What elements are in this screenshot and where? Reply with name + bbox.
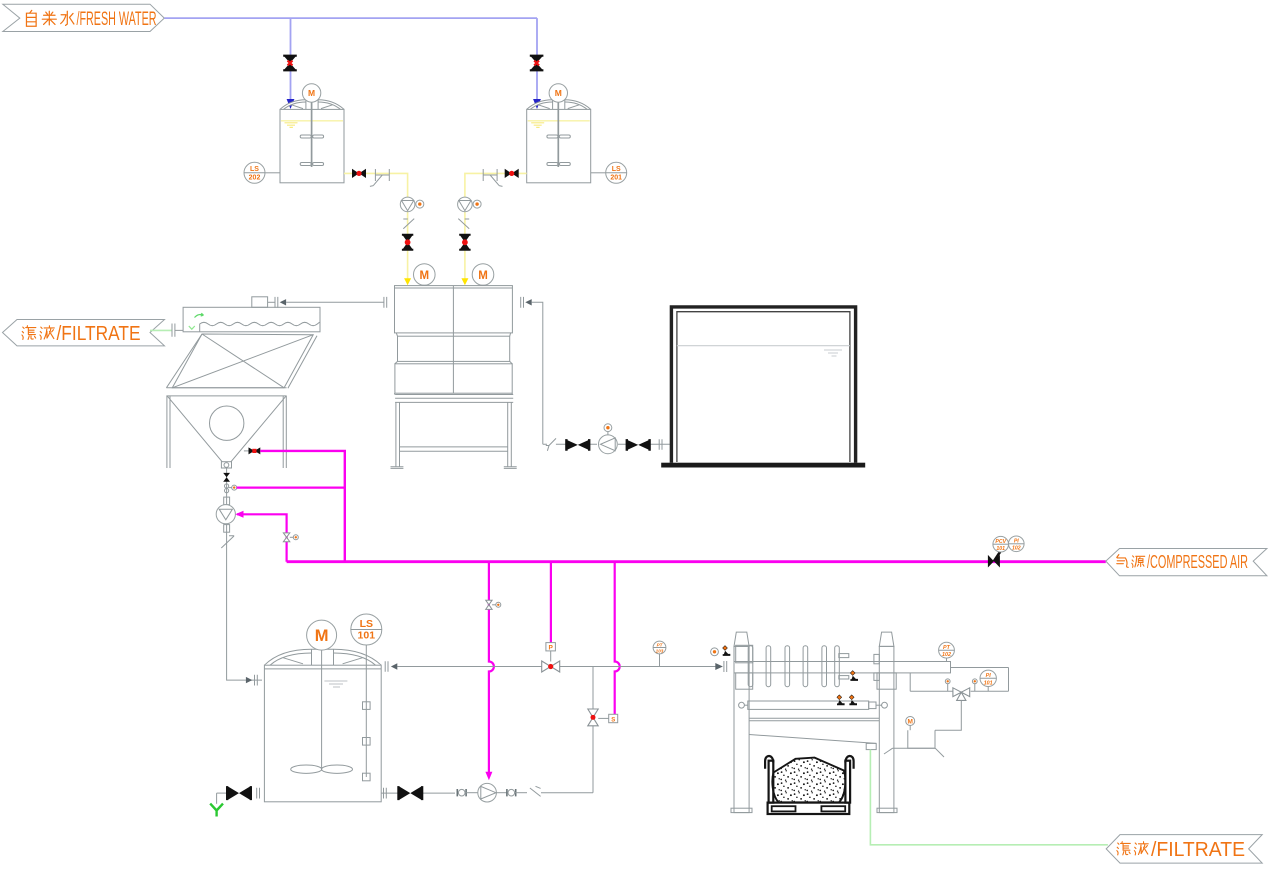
sludge pile (speckled) — [772, 758, 845, 803]
yellow outlet line TK202 — [344, 173, 408, 280]
weir wave inside trough — [200, 322, 320, 332]
filtrate line into trough (green) — [150, 329, 172, 331]
sensor flag on beam — [850, 671, 858, 681]
cart hooks — [765, 756, 773, 769]
cart base frame — [768, 803, 850, 814]
air riser to slurry pump (bottom) with hop — [489, 562, 494, 773]
air branch to pressure regulator — [550, 562, 552, 643]
motor on hydraulic pack — [906, 717, 915, 726]
motor M on TK201 — [549, 84, 567, 102]
valve below P201 — [459, 235, 470, 250]
valve below P202 — [402, 235, 413, 250]
blue arrow into tank TK201 — [533, 99, 541, 109]
filtrate collecting trough — [183, 307, 320, 332]
svg-text:PI: PI — [1014, 539, 1019, 545]
instrument PI102 — [1009, 536, 1025, 552]
valve on fresh water line (left) — [283, 56, 297, 71]
slurry return line into TK101 (from press line) — [397, 666, 716, 668]
valve pump suction — [566, 439, 589, 451]
pipe trough-stub to mix tank — [286, 301, 384, 303]
dosing pump P202 — [400, 197, 415, 212]
press right column — [879, 632, 894, 646]
banner FILTRATE (bottom right) — [1106, 835, 1262, 864]
filter plates — [748, 646, 839, 687]
wash/blow pipe loop — [910, 668, 1008, 692]
dosing pump P201 — [458, 197, 473, 212]
hydraulic power pack box — [908, 730, 935, 748]
inlet arrow left of TK101 — [246, 677, 252, 683]
valve stem to hydraulic box — [935, 701, 961, 731]
right nozzle of mix tank + arrow — [521, 297, 524, 308]
sludge conditioning tank TK101 — [264, 649, 381, 802]
coupling before slurry pump — [457, 789, 466, 796]
drip tray slope — [749, 735, 876, 744]
yellow arrow into mix tank (left) — [404, 278, 411, 285]
press frame cross beam — [749, 718, 879, 721]
slurry feed pump (air diaphragm) — [478, 783, 497, 802]
check valve P202 — [403, 219, 414, 229]
water level in basin — [677, 345, 850, 347]
agitator TK101 — [291, 650, 353, 773]
check valve below hopper pump — [221, 536, 234, 548]
agitator TK202 — [300, 102, 323, 167]
level switch LS201 — [591, 172, 606, 174]
drain pipe + Y strainer (green) — [216, 793, 218, 804]
check valve after slurry pump — [530, 786, 541, 796]
coupling above hopper pump — [224, 497, 230, 505]
outlet valve TK101 bottom-right — [381, 792, 455, 794]
svg-text:/FILTRATE: /FILTRATE — [1151, 839, 1245, 861]
svg-text:101: 101 — [984, 680, 993, 686]
press feed arrow + flange — [715, 663, 723, 670]
coupling below hopper pump — [224, 525, 230, 533]
svg-text:103: 103 — [656, 648, 664, 653]
svg-text:/FILTRATE: /FILTRATE — [57, 323, 141, 345]
inline air valve on riser — [486, 600, 492, 609]
flow arrow (green) in trough — [195, 313, 204, 317]
level transmitter LS101 — [351, 614, 382, 645]
press feed control valve — [588, 709, 598, 726]
filtrate outlet box — [866, 743, 876, 749]
compressed air main line (magenta) — [287, 560, 1106, 563]
svg-text:102: 102 — [942, 652, 951, 658]
air fitting under hopper — [225, 484, 229, 488]
pilot taps on pipe loop — [945, 679, 950, 684]
strainer TK201 outlet — [483, 169, 502, 186]
three-way core blow valve — [953, 688, 970, 701]
right discharge chute — [884, 748, 944, 757]
valve pump discharge — [627, 439, 650, 451]
svg-text:M: M — [555, 88, 562, 98]
banner FRESH WATER (自来水) — [3, 4, 165, 31]
arrow into TK101 right nozzle — [391, 663, 397, 669]
basin base — [661, 463, 865, 468]
pressure transmitter PT102 — [939, 642, 955, 658]
svg-text:LS: LS — [250, 166, 259, 173]
valve TK201 outlet — [505, 169, 519, 178]
svg-text:M: M — [907, 719, 912, 726]
svg-text:M: M — [420, 270, 430, 282]
check valve P201 — [458, 219, 469, 229]
flex connector at pump suction — [546, 438, 556, 450]
magenta branch to hopper fitting — [237, 487, 345, 489]
level switch LS202 — [265, 172, 280, 174]
level mark (green) in trough — [189, 326, 195, 329]
coupling after slurry pump — [496, 792, 507, 794]
flange at trough inlet — [172, 324, 183, 337]
hydraulic closing bar — [739, 702, 745, 708]
magenta air line from hopper valve — [260, 451, 345, 562]
regulator pilot box P — [546, 643, 556, 651]
svg-text:/FRESH WATER: /FRESH WATER — [77, 8, 157, 30]
solenoid box on feed valve — [598, 717, 609, 719]
sludge cart — [765, 756, 854, 814]
moving head brackets — [839, 654, 849, 658]
svg-text:M: M — [478, 270, 488, 282]
transfer pump — [599, 435, 618, 454]
branch to press feed riser — [592, 667, 594, 793]
outlet valve TK101 bottom-left — [217, 792, 228, 794]
motor M on TK202 — [302, 84, 320, 102]
filtrate drain line (green) to banner — [870, 750, 1108, 845]
motor M mix cell left — [414, 264, 436, 286]
svg-text:PT: PT — [943, 645, 951, 651]
level probes in TK101 — [365, 645, 367, 777]
instrument PI103 on slurry line — [653, 641, 666, 654]
sensor flag at press inlet — [723, 646, 731, 656]
limit switch with pilot at press inlet — [711, 648, 719, 656]
svg-text:S: S — [611, 717, 615, 723]
arrow into trough stub — [280, 299, 286, 305]
svg-text:/COMPRESSED AIR: /COMPRESSED AIR — [1147, 551, 1248, 572]
blue arrow into tank TK202 — [287, 99, 295, 109]
magenta air feed to hopper pump — [237, 514, 287, 561]
valve TK202 outlet — [352, 169, 366, 178]
main air shut-off valve — [988, 551, 1001, 567]
valve on fresh water line (right) — [530, 56, 544, 71]
mixing tank TK201 — [527, 100, 591, 183]
line hopper pump to tank TK101 — [227, 548, 262, 680]
level line TK201 (yellow) — [528, 120, 590, 122]
air branch to press sludge valve with hop — [615, 562, 620, 715]
mixing/reaction tank (two cells) on stand — [395, 286, 514, 403]
mixing tank TK202 — [280, 100, 344, 183]
banner FILTRATE (left) — [3, 320, 165, 346]
svg-text:201: 201 — [610, 175, 622, 182]
press left column — [734, 632, 749, 646]
level line TK202 (yellow) — [281, 120, 343, 122]
overflow stub on trough — [252, 297, 268, 308]
svg-text:M: M — [315, 627, 329, 645]
motor M mix cell right — [472, 264, 494, 286]
air diaphragm pump under hopper — [216, 505, 235, 524]
sensor flags on closing bar — [837, 695, 845, 705]
fresh water pipe (blue) — [164, 18, 537, 101]
line stub to tank, flange, arrow — [268, 301, 275, 303]
small air valve on pump feed — [283, 533, 289, 542]
pressure gauge PI101 — [980, 670, 996, 686]
clean water tank (open basin) — [670, 307, 858, 463]
sludge hopper / thickener — [166, 334, 317, 468]
strainer TK202 outlet — [370, 169, 389, 186]
cart posts — [769, 761, 774, 803]
svg-text:M: M — [308, 88, 315, 98]
instrument PCV101 — [993, 536, 1009, 552]
pipe mix tank to transfer pump — [532, 302, 670, 444]
agitator TK201 — [547, 102, 570, 167]
flange at big tank inlet — [659, 439, 662, 450]
svg-text:202: 202 — [249, 175, 261, 182]
svg-text:LS: LS — [360, 618, 373, 630]
svg-text:P: P — [549, 645, 554, 652]
left nozzle flange of mix tank — [384, 297, 387, 308]
motor M on TK101 — [307, 620, 337, 650]
svg-text:PI: PI — [986, 673, 992, 679]
water level TK101 — [324, 681, 347, 687]
yellow arrow into mix tank (right) — [461, 278, 468, 285]
hopper bottom outlet line — [226, 468, 228, 548]
pressure reducing valve on slurry line — [542, 661, 560, 672]
banner COMPRESSED AIR (气源) — [1106, 549, 1267, 576]
svg-text:101: 101 — [996, 546, 1005, 552]
svg-text:101: 101 — [358, 630, 376, 642]
pinch valve under hopper — [223, 473, 230, 482]
hopper side drain valve — [244, 450, 249, 452]
svg-text:PCV: PCV — [995, 539, 1006, 545]
yellow outlet line TK201 — [465, 173, 527, 280]
filter press main beam — [734, 662, 951, 673]
svg-text:LS: LS — [612, 166, 621, 173]
tank stand — [391, 402, 517, 468]
svg-text:102: 102 — [1012, 546, 1021, 552]
pump discharge to press riser — [541, 792, 593, 794]
